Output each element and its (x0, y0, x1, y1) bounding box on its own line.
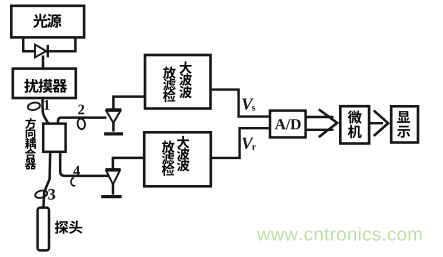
port label 4 (73, 166, 80, 176)
wire: microcomputer to display (369, 122, 383, 124)
wires: A/D to microcomputer (double line) (306, 117, 334, 130)
box: microcomputer 微机 (340, 106, 369, 143)
label 探头 (probe) (55, 221, 83, 234)
label 显示 (display) (397, 111, 410, 138)
small loop mark under wire 4 (71, 178, 75, 186)
label lower 放大滤波检波 (162, 136, 190, 176)
wire: D1 to scrambler (42, 56, 45, 69)
box: lower amplifier/filter/detector 放大滤波检波 (144, 132, 211, 186)
label Vr (242, 138, 256, 150)
label upper 放大滤波检波 (163, 61, 192, 102)
coil loop at port 2 (77, 118, 86, 130)
wire: upper amp output Vs to A/D (211, 90, 271, 117)
wire: D2 to upper amp box (113, 97, 145, 110)
watermark www.cntronics.com (257, 227, 422, 241)
arrowhead into display (374, 111, 388, 136)
label Vs (242, 99, 255, 111)
diode D2 (upper detector) (104, 110, 123, 134)
port label 3 (48, 189, 55, 200)
box: display 显示 (391, 106, 418, 142)
diode D1 (in light-source loop, pointing right) (35, 45, 48, 58)
wire: coupler port 2 to upper diode (58, 118, 106, 124)
wire: coupler port 4 to lower diode (60, 152, 109, 176)
coil loop at port 1 (27, 101, 41, 111)
text A/D (275, 119, 301, 129)
diode D3 (lower detector) (101, 169, 121, 196)
box: scrambler 扰摸器 (13, 69, 76, 98)
label 微机 (microcomputer) (348, 110, 362, 138)
wire loop below light source (23, 38, 75, 52)
label 方向耦合器 (directional coupler, vertical) (25, 118, 36, 170)
label 光源 (light source) (33, 14, 61, 28)
big arrowhead into microcomputer (319, 109, 337, 137)
wire: lower amp output Vr to A/D (211, 128, 270, 158)
wire: coupler port 3 down to probe (43, 152, 50, 208)
wire: scrambler to coupler (port 1) (43, 98, 49, 124)
box: A/D converter (270, 111, 306, 138)
label 扰摸器 (mode scrambler) (24, 79, 67, 93)
port label 1 (44, 100, 49, 110)
box: probe (tall narrow) (38, 208, 49, 251)
coil loop at port 3 (34, 189, 48, 199)
wire: D3 to lower amp box (113, 158, 144, 170)
port label 2 (78, 105, 84, 115)
box: directional coupler (43, 124, 65, 152)
box: upper amplifier/filter/detector 放大滤波检波 (145, 55, 211, 109)
box: light source 光源 (11, 6, 84, 38)
